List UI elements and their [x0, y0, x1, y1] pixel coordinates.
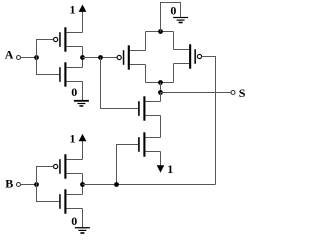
svg-text:1: 1	[167, 162, 173, 176]
wire M6 gate to nB	[117, 145, 139, 185]
wire M4 top to rail	[173, 32, 175, 50]
svg-text:0: 0	[71, 214, 77, 228]
wire B to M8 gate	[37, 185, 60, 202]
power 1 (down) below M6	[157, 162, 174, 176]
wire B to M7 gate	[37, 167, 54, 185]
wire A input	[21, 57, 37, 59]
ground 0 below inverter A	[71, 85, 89, 107]
wire top rail of pair	[146, 31, 174, 33]
node nB tap junction	[114, 182, 119, 187]
transistor M4 (right PMOS of pair, mirrored)	[174, 44, 202, 68]
wire node S to output terminal	[161, 92, 232, 94]
wire bottom rail of pair	[146, 82, 174, 84]
svg-text:1: 1	[70, 132, 76, 146]
wire M7 drain to node nB	[82, 174, 84, 195]
svg-text:B: B	[5, 176, 13, 190]
wire M8 source to ground	[82, 209, 84, 228]
wire M3 top to rail	[145, 32, 147, 51]
wire node nA to M3 gate	[83, 57, 118, 59]
wire rail down to node S	[160, 83, 162, 93]
node B junction	[34, 182, 39, 187]
ground 0 below inverter B	[71, 214, 90, 234]
svg-text:A: A	[5, 48, 14, 62]
node top rail junction	[158, 29, 163, 34]
svg-text:0: 0	[71, 85, 77, 99]
terminal S	[231, 91, 235, 95]
power 1 (VDD) above inverter B	[70, 132, 87, 146]
transistor M7 (PMOS of inverter B)	[54, 154, 83, 178]
transistor M5 (series NMOS, gate from nA)	[138, 96, 160, 120]
node bottom rail junction	[158, 80, 163, 85]
wire A to M1 gate	[37, 40, 54, 58]
wire node S down to M5	[160, 93, 162, 102]
wire M4 bottom to rail	[173, 64, 175, 83]
wire M1 source to VDD	[82, 12, 84, 33]
ground 0 above pair	[161, 3, 189, 32]
wire M1 drain to node nA	[82, 47, 84, 68]
node S junction	[158, 90, 163, 95]
wire M7 source to VDD	[82, 141, 84, 159]
transistor M2 (NMOS of inverter A)	[59, 62, 82, 86]
node A junction	[34, 55, 39, 60]
terminal B	[17, 183, 21, 187]
wire nA down to M5 gate	[101, 58, 139, 109]
svg-text:1: 1	[70, 3, 76, 17]
svg-text:S: S	[239, 86, 246, 100]
transistor M6 (series NMOS, gate from nB)	[138, 132, 160, 156]
wire node nB to riser	[83, 184, 216, 186]
node nA tap junction	[98, 55, 103, 60]
terminal A	[17, 56, 21, 60]
transistor M3 (left PMOS of pair, gate from nA)	[117, 45, 145, 69]
node nB junction	[80, 182, 85, 187]
svg-text:0: 0	[170, 4, 176, 18]
wire M3 bottom to rail	[145, 65, 147, 83]
wire M4 gate to net nB riser	[202, 57, 216, 185]
power 1 (VDD) above inverter A	[70, 3, 87, 17]
transistor M8 (NMOS of inverter B)	[59, 189, 82, 213]
wire A to M2 gate	[37, 58, 60, 75]
wire B input	[21, 184, 37, 186]
wire M2 source to ground	[82, 82, 84, 101]
node nA junction	[80, 55, 85, 60]
wire M6 source to power	[160, 152, 162, 166]
transistor M1 (PMOS of inverter A)	[54, 27, 83, 51]
wire M5 to M6	[160, 116, 162, 138]
